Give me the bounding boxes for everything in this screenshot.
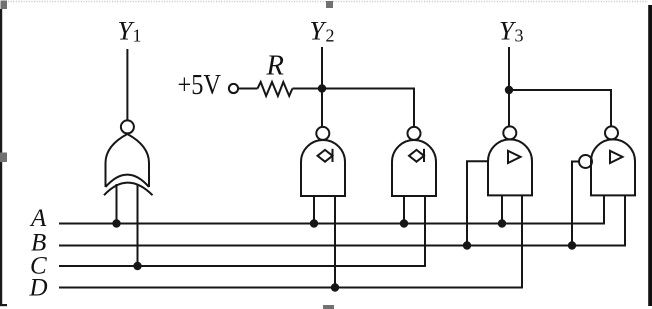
+5V terminal	[229, 84, 238, 93]
junction on net B	[568, 241, 576, 249]
junction on net C	[133, 262, 141, 270]
label D	[29, 275, 48, 302]
label C	[30, 253, 47, 280]
junction Y3	[505, 86, 513, 94]
wire Y2 output	[321, 47, 323, 127]
svg-text:1: 1	[133, 26, 142, 46]
junction on net A	[310, 219, 318, 227]
output bubble of U5	[605, 126, 618, 139]
wire: U4 enable input to net B	[467, 161, 488, 245]
label Y2	[310, 16, 335, 46]
junction on net A	[112, 219, 120, 227]
svg-text:A: A	[29, 205, 47, 232]
label Y3	[499, 16, 524, 46]
junction on net A	[400, 219, 408, 227]
net A	[59, 223, 605, 225]
wire: Y3 node to U5 output	[509, 90, 611, 127]
open-collector NAND gate U2	[301, 140, 345, 196]
net D	[59, 287, 523, 289]
wire: U4 right input from net D	[521, 195, 523, 287]
svg-text:3: 3	[515, 26, 524, 46]
wire: U4 left input to net A	[501, 195, 503, 223]
open-collector NAND gate U3	[392, 140, 436, 196]
output bubble of U3	[408, 127, 421, 140]
output bubble of U4	[503, 126, 516, 139]
svg-text:2: 2	[326, 26, 335, 46]
net B	[59, 245, 626, 247]
wire: U2 right input to net D	[334, 196, 336, 288]
wire Y1 output	[126, 49, 128, 120]
XNOR gate U1	[104, 134, 153, 195]
tri-state NAND gate U4	[488, 139, 532, 195]
resistor R	[239, 82, 322, 96]
svg-text:+5V: +5V	[178, 70, 222, 101]
wire Y3 output	[508, 47, 510, 126]
wire: Y2 node to U3 output	[322, 89, 414, 128]
tri-state NAND gate U5	[591, 139, 635, 195]
wire: U5 right input from net B	[624, 195, 626, 245]
wire: U1 right input to net C	[137, 185, 139, 266]
svg-text:D: D	[29, 275, 48, 302]
wire: U1 left input to net A	[116, 184, 118, 224]
label R	[266, 51, 284, 82]
junction on net B	[463, 241, 471, 249]
input bubble of U5 enable	[579, 155, 592, 168]
wire: U3 right input from net C	[424, 196, 426, 266]
junction on net D	[331, 283, 339, 291]
label +5V	[178, 70, 222, 101]
label B	[31, 230, 46, 257]
wire: U5 left input from net A	[603, 195, 605, 223]
output bubble of U1	[121, 120, 134, 133]
wire: U3 left input to net A	[403, 196, 405, 224]
svg-text:R: R	[266, 51, 284, 82]
wire: U5 enable input to net B	[572, 162, 579, 246]
label Y1	[118, 16, 142, 46]
label A	[29, 205, 47, 232]
output bubble of U2	[316, 127, 329, 140]
junction on net A	[498, 219, 506, 227]
net C	[59, 265, 426, 267]
wire: U2 left input to net A	[313, 196, 315, 224]
junction Y2/R	[318, 84, 326, 92]
